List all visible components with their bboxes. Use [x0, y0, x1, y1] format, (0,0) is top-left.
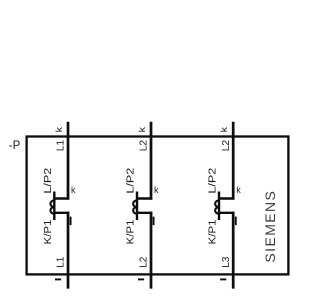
svg-text:L1: L1 [55, 140, 67, 152]
svg-text:L/P2: L/P2 [42, 168, 54, 194]
svg-text:k: k [137, 126, 147, 132]
svg-text:k: k [154, 185, 159, 195]
svg-text:L/P2: L/P2 [207, 168, 219, 194]
svg-text:k: k [54, 126, 64, 132]
svg-text:L3: L3 [220, 256, 232, 267]
svg-text:k: k [71, 185, 76, 195]
svg-text:L2: L2 [220, 140, 232, 152]
svg-text:K/P1: K/P1 [125, 219, 137, 244]
svg-text:L1: L1 [55, 256, 67, 267]
svg-text:k: k [236, 185, 241, 195]
svg-text:L/P2: L/P2 [125, 168, 137, 194]
svg-text:K/P1: K/P1 [42, 219, 54, 244]
svg-text:L2: L2 [138, 256, 150, 267]
svg-text:K/P1: K/P1 [207, 219, 219, 244]
svg-text:-P: -P [9, 140, 21, 152]
svg-text:k: k [219, 126, 229, 132]
svg-text:L2: L2 [138, 140, 150, 152]
